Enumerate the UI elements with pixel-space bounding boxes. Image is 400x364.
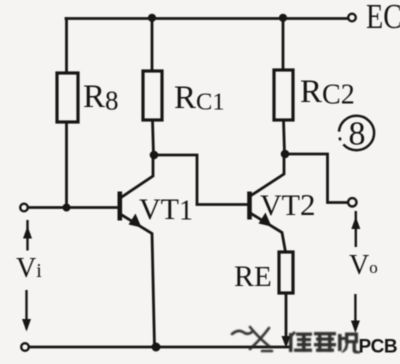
- svg-text:VT2: VT2: [260, 187, 316, 222]
- svg-text:VT1: VT1: [139, 193, 193, 227]
- wire VT2 collector to output terminal: [285, 154, 347, 203]
- junction dot top rail at RC2: [279, 14, 287, 22]
- VT2 emitter: [251, 214, 286, 253]
- wire RC2 top lead: [282, 19, 285, 71]
- junction dot bottom rail at VT1 emitter: [152, 343, 161, 352]
- VT1 emitter arrowhead: [129, 214, 142, 228]
- VT2 collector: [251, 154, 284, 196]
- resistor R8: [57, 73, 78, 122]
- VT1 base bar: [118, 192, 123, 221]
- transistor VT1: [120, 155, 155, 347]
- wire RC2 bottom lead: [284, 120, 285, 154]
- junction dot VT2 collector node: [281, 150, 290, 159]
- wire input to VT1 base: [29, 206, 119, 209]
- Vi upper arrow: [23, 220, 32, 251]
- terminal output: [348, 198, 356, 206]
- wire RE bottom lead: [285, 293, 288, 342]
- VT1 emitter: [121, 215, 155, 348]
- resistor RE: [279, 252, 293, 293]
- resistor RC2: [274, 70, 293, 120]
- wire top supply rail: [66, 17, 347, 20]
- junction dot VT1 base node: [63, 204, 71, 212]
- Vo lower arrow: [351, 294, 360, 333]
- svg-text:RE: RE: [234, 260, 272, 293]
- Vi lower arrow: [22, 290, 31, 332]
- terminal input top: [20, 204, 28, 212]
- watermark text characters: [289, 331, 360, 354]
- circled 8 stage marker: [339, 116, 374, 153]
- VT2 base bar: [247, 192, 252, 220]
- svg-text:PCB: PCB: [359, 337, 398, 358]
- transistor VT2: [250, 154, 286, 252]
- wire R8 bottom lead to input node: [65, 122, 68, 208]
- wire RC1 bottom lead: [153, 120, 154, 155]
- terminal EC: [348, 14, 356, 22]
- svg-text:RC2: RC2: [300, 74, 355, 111]
- junction dot VT1 collector node: [150, 151, 159, 160]
- junction dot top rail at RC1: [148, 14, 156, 22]
- Vo upper arrow: [351, 211, 360, 247]
- wire bottom rail: [30, 346, 291, 349]
- wire interstage coupling VT1 collector to VT2 base: [154, 155, 248, 205]
- VT2 emitter arrowhead: [259, 213, 272, 227]
- VT1 collector: [121, 155, 153, 198]
- resistor RC1: [143, 71, 162, 120]
- watermark scribble X: [232, 327, 272, 351]
- junction arrow at RE to bottom rail: [282, 336, 291, 348]
- svg-text:EC: EC: [366, 0, 400, 36]
- svg-text:8: 8: [349, 116, 366, 153]
- wire R8 top lead: [65, 19, 68, 74]
- terminal input bottom: [21, 343, 29, 351]
- wire RC1 top lead: [151, 19, 154, 72]
